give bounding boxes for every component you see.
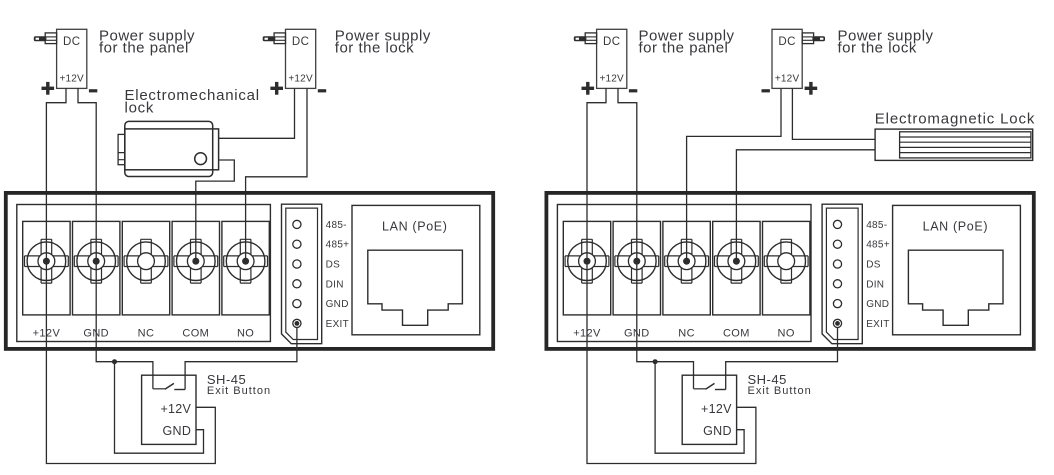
electromagnetic lock bar	[875, 129, 1033, 160]
polarity mark + (PS4)	[805, 82, 818, 95]
right switch right contact	[715, 389, 726, 391]
left header pin DS	[293, 260, 340, 271]
right header pin DIN	[833, 279, 884, 290]
right connector strip (485/DS/DIN/GND/EXIT header)	[822, 204, 862, 344]
right header pin GND	[833, 299, 889, 310]
right RJ45 jack outline	[908, 250, 1003, 325]
label: Power supply for the panel (right)	[639, 27, 735, 56]
polarity mark - (PS4)	[762, 89, 770, 92]
label: Power supply for the lock (left)	[335, 27, 431, 56]
svg-text:485-: 485-	[866, 220, 887, 231]
svg-text:GND: GND	[624, 328, 650, 340]
left header pin 485+	[293, 240, 350, 251]
svg-text:Exit Button: Exit Button	[207, 385, 271, 397]
svg-text:NO: NO	[778, 328, 795, 340]
right terminal labels +12V GND NC COM NO	[573, 328, 795, 340]
left switch right contact	[174, 389, 185, 391]
wire: maglock lower wire -> COM terminal (right)	[736, 150, 875, 261]
svg-text:DC: DC	[63, 36, 80, 48]
junction dot: COM screw (right)	[733, 258, 740, 265]
right header pin DS	[833, 260, 880, 271]
left access panel body (thick border)	[6, 193, 493, 349]
svg-text:DIN: DIN	[326, 279, 344, 290]
wire: PS3 + -> +12V terminal -> exit button +12V (right)	[587, 88, 756, 463]
left header pin GND	[293, 299, 349, 310]
svg-text:+12V: +12V	[160, 402, 191, 416]
screw terminal GND (left)	[73, 221, 120, 315]
junction dot: NO screw (left)	[242, 258, 249, 265]
right header pin 485-	[833, 220, 887, 231]
right header pin 485+	[833, 240, 890, 251]
svg-text:DS: DS	[866, 260, 881, 271]
svg-text:DIN: DIN	[866, 279, 884, 290]
polarity mark + (PS2 left)	[270, 82, 283, 95]
svg-text:GND: GND	[866, 299, 889, 310]
svg-text:485+: 485+	[326, 240, 350, 251]
screw terminal COM (right)	[713, 221, 760, 315]
junction dot: NC screw (right)	[683, 258, 690, 265]
wire: lock lower wire -> COM terminal	[196, 160, 235, 261]
svg-text:for the lock: for the lock	[838, 40, 917, 57]
left connector strip (485/DS/DIN/GND/EXIT header)	[282, 204, 322, 344]
screw terminal NC (left)	[122, 221, 169, 315]
left RJ45 jack outline	[368, 250, 463, 325]
svg-text:485+: 485+	[866, 240, 890, 251]
junction dot: COM screw (left)	[192, 258, 199, 265]
junction dot: +12V screw (left)	[43, 258, 50, 265]
svg-text:NO: NO	[237, 328, 254, 340]
svg-text:LAN (PoE): LAN (PoE)	[923, 220, 989, 234]
svg-text:COM: COM	[723, 328, 750, 340]
svg-text:GND: GND	[83, 328, 109, 340]
svg-text:DC: DC	[778, 36, 795, 48]
svg-text:+12V: +12V	[59, 73, 84, 84]
svg-text:DC: DC	[292, 36, 309, 48]
svg-text:Electromagnetic Lock: Electromagnetic Lock	[875, 111, 1035, 128]
left terminal block container	[17, 205, 271, 342]
svg-text:DC: DC	[603, 36, 620, 48]
left LAN (PoE) port box	[352, 205, 480, 334]
wire: EXIT pin -> switch right lead (left)	[185, 328, 297, 390]
svg-text:485-: 485-	[326, 220, 347, 231]
svg-text:+12V: +12V	[599, 73, 624, 84]
polarity mark + (PS1 left)	[42, 82, 55, 95]
svg-text:GND: GND	[326, 299, 349, 310]
svg-text:+12V: +12V	[775, 73, 800, 84]
left switch blade	[165, 383, 174, 389]
svg-text:lock: lock	[125, 100, 155, 117]
svg-text:NC: NC	[138, 328, 155, 340]
svg-text:+12V: +12V	[288, 73, 313, 84]
power supply adapter PS2 (left lock supply)	[263, 29, 316, 88]
wire: PS3 - -> GND terminal -> switch left lead (right)	[618, 88, 694, 389]
wire: PS1 + -> +12V terminal -> exit button +12V	[46, 88, 215, 463]
svg-text:NC: NC	[678, 328, 695, 340]
power supply adapter PS3 (right panel supply)	[574, 29, 627, 88]
label: Power supply for the lock (right)	[838, 27, 934, 56]
power supply adapter PS4 (right lock supply)	[772, 29, 825, 88]
junction dot: +12V screw (right)	[584, 258, 591, 265]
left switch contact stub	[153, 388, 165, 390]
svg-text:Exit Button: Exit Button	[748, 385, 812, 397]
wire: PS4 + -> maglock upper wire	[792, 88, 875, 139]
polarity mark - (PS1 left)	[89, 89, 97, 92]
screw terminal NC (right)	[663, 221, 710, 315]
screw terminal NO (left)	[222, 221, 269, 315]
wire: junction -> exit button GND pin (right)	[655, 362, 744, 454]
screw terminal GND (right)	[613, 221, 660, 315]
electromechanical lock body	[118, 121, 219, 176]
wire: EXIT pin -> switch right lead (right)	[726, 328, 838, 390]
screw terminal +12V (left)	[23, 221, 70, 315]
screw terminal NO (right)	[763, 221, 810, 315]
right LAN (PoE) port box	[893, 205, 1021, 334]
svg-text:EXIT: EXIT	[326, 319, 349, 330]
polarity mark - (PS3)	[629, 89, 637, 92]
wire: PS2 + -> lock upper wire	[219, 88, 295, 138]
left terminal labels +12V GND NC COM NO	[33, 328, 255, 340]
left header pin 485-	[293, 220, 347, 231]
right header pin EXIT	[833, 319, 889, 330]
junction dot: GND screw (right)	[633, 258, 640, 265]
wire: PS1 - -> GND terminal -> switch left lead	[78, 88, 153, 389]
svg-text:+12V: +12V	[573, 328, 601, 340]
svg-text:+12V: +12V	[701, 402, 732, 416]
svg-text:EXIT: EXIT	[866, 319, 889, 330]
junction dot: GND screw (left)	[93, 258, 100, 265]
svg-text:for the panel: for the panel	[639, 40, 729, 57]
svg-text:GND: GND	[703, 424, 732, 438]
svg-text:for the lock: for the lock	[335, 40, 414, 57]
svg-text:COM: COM	[182, 328, 209, 340]
screw terminal COM (left)	[172, 221, 219, 315]
junction dot: GND/exit-button node (left)	[112, 359, 117, 364]
svg-text:for the panel: for the panel	[99, 40, 189, 57]
power supply adapter PS1 (left panel supply)	[34, 29, 87, 88]
svg-text:GND: GND	[163, 424, 192, 438]
right exit button box SH-45	[682, 375, 736, 444]
left exit button box SH-45	[142, 375, 196, 444]
right terminal block container	[557, 205, 811, 342]
wire: PS2 - -> NO terminal	[246, 88, 307, 261]
polarity mark - (PS2 left)	[318, 89, 326, 92]
label: Electromechanical lock	[125, 87, 260, 116]
polarity mark + (PS3)	[582, 82, 595, 95]
junction dot: GND/exit-button node (right)	[653, 359, 658, 364]
right switch blade	[706, 383, 715, 389]
right switch contact stub	[694, 388, 706, 390]
label: Power supply for the panel (left)	[99, 27, 195, 56]
right access panel body (thick border)	[546, 193, 1033, 349]
wire: junction -> exit button GND pin (left)	[115, 362, 204, 454]
left header pin EXIT	[293, 319, 349, 330]
left header pin DIN	[293, 279, 344, 290]
svg-text:+12V: +12V	[33, 328, 61, 340]
screw terminal +12V (right)	[563, 221, 610, 315]
wire: PS4 - -> NC terminal (right)	[687, 88, 781, 261]
svg-text:LAN (PoE): LAN (PoE)	[382, 220, 448, 234]
svg-text:DS: DS	[326, 260, 341, 271]
